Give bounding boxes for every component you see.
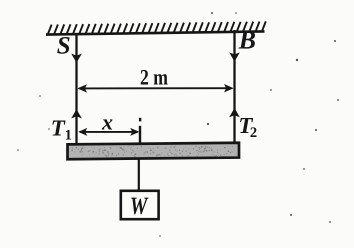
ceiling hatching [48, 21, 266, 33]
arrow down on right string [229, 52, 240, 61]
beam texture [145, 151, 147, 153]
dimension line 2 m [80, 87, 231, 89]
wire: hang line below beam [138, 158, 140, 191]
wire: hang tick above beam [139, 118, 141, 122]
svg-text:2: 2 [250, 125, 257, 141]
ceiling line [46, 31, 265, 34]
svg-text:x: x [101, 110, 113, 135]
svg-text:1: 1 [65, 127, 72, 143]
dimension line x [80, 131, 138, 133]
wire: hang line to W [139, 126, 141, 158]
beam [68, 143, 240, 159]
svg-text:S: S [57, 32, 71, 59]
svg-text:B: B [238, 25, 256, 54]
wire: left string S [75, 34, 77, 147]
scan speckles (noise) [296, 59, 298, 61]
arrow up T2 on right string [229, 108, 240, 117]
svg-text:W: W [130, 193, 149, 220]
arrow down on left string [71, 54, 82, 63]
wire: right string B [233, 30, 235, 144]
arrow up T1 on left string [71, 109, 82, 118]
svg-text:2 m: 2 m [140, 64, 168, 89]
svg-text:T: T [51, 115, 66, 140]
weight box W [121, 191, 159, 219]
